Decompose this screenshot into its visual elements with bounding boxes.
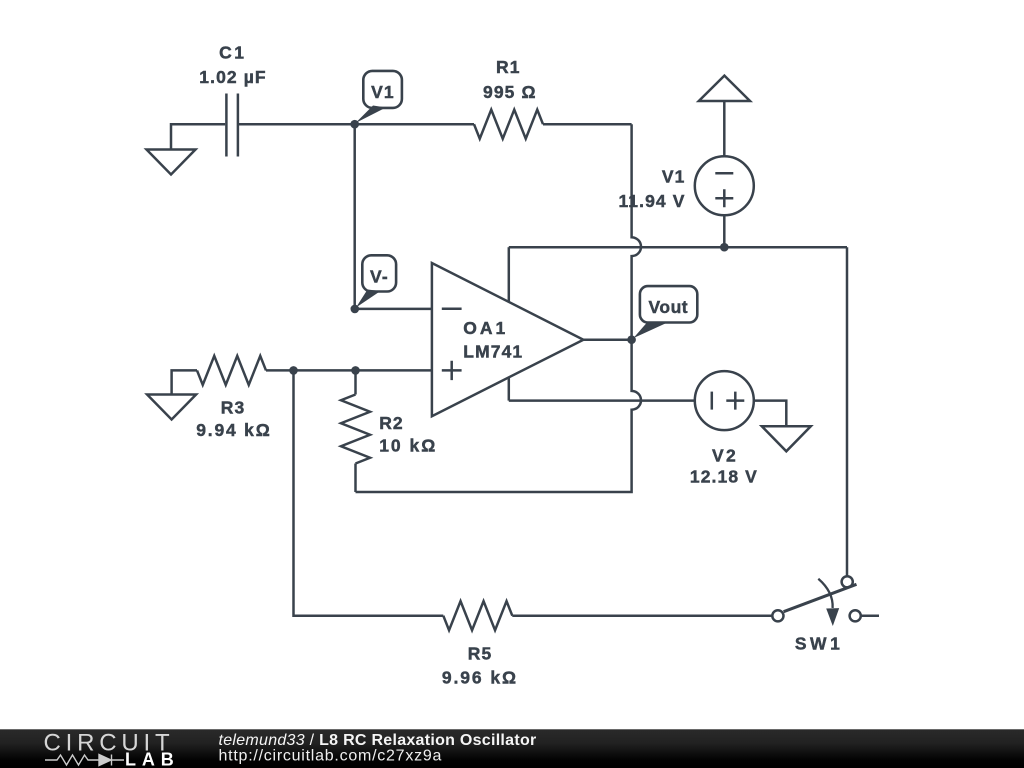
switch SW1 top terminal [842, 576, 853, 587]
wire: V1 bottom to supply node [723, 215, 726, 247]
svg-text:R1: R1 [496, 57, 521, 77]
svg-text:R3: R3 [221, 397, 246, 417]
voltage source V2 circle [695, 371, 754, 430]
svg-text:9.94 kΩ: 9.94 kΩ [196, 420, 271, 440]
flag V- box [362, 255, 396, 291]
op-amp V+ power pin [508, 247, 511, 302]
switch SW1 arrow head [826, 608, 839, 626]
ground GND1 (left of C1) [147, 150, 196, 175]
V1 plus symbol [715, 189, 733, 207]
svg-text:V1: V1 [371, 82, 395, 102]
flag V- pointer wedge [356, 290, 381, 308]
flag Vout pointer wedge [634, 323, 668, 339]
wire: R3 ground stem [172, 370, 197, 395]
svg-text:11.94 V: 11.94 V [618, 191, 685, 211]
svg-text:9.96 kΩ: 9.96 kΩ [442, 668, 518, 688]
footer bar [0, 729, 1024, 768]
node dot V1 [350, 120, 359, 129]
op-amp non-inverting input symbol [442, 361, 462, 380]
svg-text:R5: R5 [468, 644, 493, 664]
wire: op-amp V- pin to V2 [509, 399, 695, 402]
node dot Vout [627, 335, 636, 344]
wire: positive supply rail [509, 246, 847, 249]
wire: R1 to feedback corner [543, 123, 632, 126]
svg-text:995 Ω: 995 Ω [483, 82, 537, 102]
svg-text:V1: V1 [662, 167, 686, 187]
resistor R5 zigzag [443, 601, 512, 630]
resistor R2 zigzag (vertical) [341, 395, 370, 464]
ground GND3 (right of V2) [762, 426, 811, 451]
wire: node V1 down to node V- [353, 124, 356, 309]
resistor R1 zigzag [474, 110, 543, 139]
node dot non-inverting 1 [289, 366, 298, 375]
wire: ground stem to C1 left plate [171, 124, 225, 150]
V2 minus symbol (rotated) [711, 392, 714, 410]
voltage source V1 circle [695, 156, 754, 215]
wire: op-amp output to Vout node [583, 338, 631, 341]
logo resistor-diode symbol [45, 755, 124, 766]
wire: C1 right plate to R1 (through node V1) [239, 123, 474, 126]
capacitor C1 plates [226, 94, 238, 157]
op-amp V- power pin [508, 377, 511, 400]
node dot V- [351, 305, 360, 314]
wire: R3 to op-amp non-inverting input [266, 369, 432, 372]
V1 minus symbol [715, 172, 733, 175]
svg-text:SW1: SW1 [795, 634, 843, 654]
svg-text:C1: C1 [219, 43, 246, 63]
svg-text:OA1: OA1 [463, 318, 508, 338]
wire: node down to bottom rail and to R5 [294, 370, 444, 615]
power flag arrow (V+ supply) [699, 76, 750, 101]
svg-text:http://circuitlab.com/c27xz9a: http://circuitlab.com/c27xz9a [219, 747, 443, 764]
resistor R2 bottom lead [354, 464, 357, 493]
wire: feedback vertical with crossover hops [356, 124, 642, 492]
wire: V- node to op-amp inverting input [355, 308, 432, 311]
op-amp inverting input symbol [442, 308, 462, 311]
svg-text:V-: V- [370, 267, 389, 287]
ground GND2 (left of R3) [147, 395, 196, 420]
svg-text:R2: R2 [379, 413, 404, 433]
V2 plus symbol [726, 392, 744, 410]
op-amp OA1 triangle [432, 263, 584, 416]
resistor R2 top lead [354, 370, 357, 394]
flag Vout box [640, 286, 697, 322]
node dot supply rail [720, 243, 729, 252]
svg-text:12.18 V: 12.18 V [690, 466, 758, 486]
wire: V2 to ground [754, 401, 787, 427]
svg-text:V2: V2 [712, 446, 738, 466]
node dot non-inverting 2 [351, 366, 360, 375]
switch SW1 right terminal [850, 610, 861, 621]
switch SW1 left terminal [772, 610, 783, 621]
svg-text:Vout: Vout [649, 297, 689, 317]
wire: rail down to switch top terminal [846, 247, 849, 576]
wire: R5 to switch left terminal [512, 614, 772, 617]
switch SW1 actuation arrow arc [818, 579, 832, 608]
svg-text:1.02 µF: 1.02 µF [199, 67, 266, 87]
svg-text:LM741: LM741 [463, 342, 523, 362]
wire: power arrow stem [723, 101, 726, 156]
flag V1 box [363, 71, 402, 108]
svg-text:LAB: LAB [125, 749, 180, 768]
resistor R3 zigzag [197, 356, 266, 385]
wire: switch right terminal stub [861, 615, 879, 618]
flag V1 pointer wedge [356, 106, 387, 124]
svg-text:10 kΩ: 10 kΩ [379, 436, 437, 456]
switch SW1 blade [784, 584, 857, 611]
